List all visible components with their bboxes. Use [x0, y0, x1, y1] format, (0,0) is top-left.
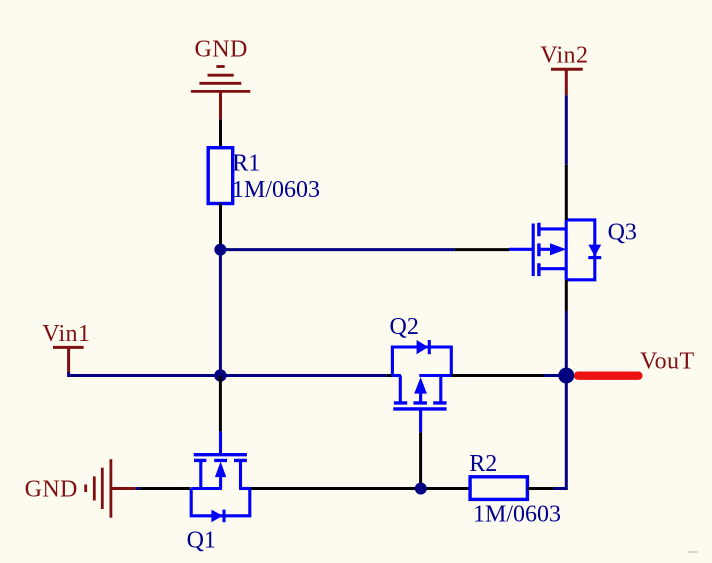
power port Vin2 symbol — [551, 69, 583, 95]
wire Q3 to VouT node (black) — [565, 280, 568, 311]
Q1 designator label — [187, 528, 216, 554]
power port GND (top) label — [195, 37, 248, 63]
transistor Q3 — [509, 220, 601, 280]
svg-text:Vin1: Vin1 — [42, 321, 90, 347]
ground symbol (top) — [191, 67, 250, 120]
wire node A vertical (navy) — [219, 245, 222, 376]
wire Q3 to VouT node (navy) — [565, 311, 568, 376]
ground symbol (left) — [86, 459, 136, 518]
wire Q2 to VouT node (black) — [451, 374, 543, 377]
transistor Q2 — [392, 340, 452, 432]
wire R1 to node A — [219, 204, 222, 245]
net label VouT — [640, 349, 695, 375]
wire node B to Q2 (navy) — [220, 374, 386, 377]
wire GND to R1 — [219, 119, 222, 149]
svg-text:GND: GND — [195, 37, 248, 63]
wire Vin1 to node B (navy) — [69, 372, 221, 376]
wire Q1 to node C (black) — [251, 487, 470, 490]
wire node A to Q3 gate (navy) — [220, 248, 454, 251]
wire R2 to corner (black) — [527, 487, 553, 490]
R2 value label 1M/0603 — [473, 502, 561, 528]
wire GND to Q1 (black) — [140, 487, 190, 490]
wire to Q2 (black) — [387, 374, 392, 377]
wire to VouT node (navy) — [544, 374, 559, 377]
svg-text:Vin2: Vin2 — [540, 43, 588, 69]
wire Vin2 to Q3 (black) — [565, 165, 568, 220]
wire Q2 gate down (black) — [419, 432, 422, 488]
resistor R1 — [208, 148, 233, 204]
svg-text:VouT: VouT — [640, 349, 695, 375]
Q3 designator label — [608, 220, 637, 246]
svg-text:1M/0603: 1M/0603 — [232, 177, 320, 203]
wire to Q3 gate (black) — [455, 248, 509, 251]
junction node C — [415, 483, 427, 495]
svg-text:1M/0603: 1M/0603 — [473, 502, 561, 528]
R2 designator label — [469, 451, 497, 477]
wire VouT node to R2 (navy) — [554, 376, 567, 489]
R1 designator label — [232, 150, 260, 176]
wire node B to Q1 gate (black) — [219, 376, 222, 432]
power port Vin2 label — [540, 43, 588, 69]
R1 value label 1M/0603 — [232, 177, 320, 203]
VouT red bus stub — [578, 372, 638, 380]
svg-text:R2: R2 — [469, 451, 497, 477]
power port Vin1 symbol — [53, 347, 84, 372]
Q2 designator label — [390, 314, 419, 340]
svg-text:R1: R1 — [232, 150, 260, 176]
svg-text:Q3: Q3 — [608, 220, 637, 246]
svg-text:Q2: Q2 — [390, 314, 419, 340]
wire Vin2 (navy) — [565, 95, 568, 165]
svg-text:Q1: Q1 — [187, 528, 216, 554]
power port GND (left) label — [25, 477, 78, 503]
resistor R2 — [470, 477, 527, 500]
junction node B — [214, 369, 226, 381]
transistor Q1 — [191, 431, 251, 522]
junction VouT node — [558, 368, 574, 384]
svg-text:GND: GND — [25, 477, 78, 503]
junction node A — [214, 244, 226, 256]
faint smudge bottom right — [688, 551, 698, 553]
power port Vin1 label — [42, 321, 90, 347]
wire GND stub (navy) — [136, 487, 141, 490]
